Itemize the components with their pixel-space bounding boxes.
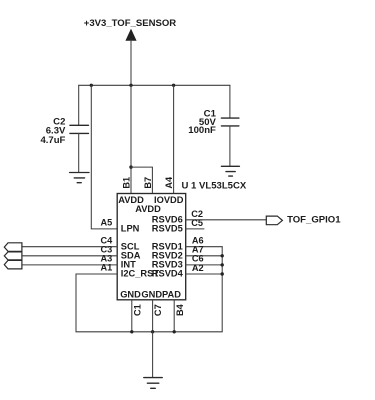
wire RSVD4 to bus xyxy=(186,273,223,275)
svg-text:A5: A5 xyxy=(100,218,112,228)
power flag +3V3_TOF_SENSOR xyxy=(126,30,136,86)
wire C1 to ground xyxy=(229,126,231,166)
wire SDA from tag xyxy=(22,255,117,257)
ground under C2 xyxy=(70,173,89,183)
capacitor C1 xyxy=(221,118,239,126)
svg-text:C5: C5 xyxy=(191,218,203,228)
hierarchical tag SDA xyxy=(4,252,22,260)
svg-text:A2: A2 xyxy=(192,263,204,273)
wire power rail xyxy=(79,84,230,86)
wire pin B4 GNDPAD xyxy=(173,300,175,332)
wire INT from tag xyxy=(22,264,117,266)
wire RSVD3 to bus xyxy=(186,264,223,266)
svg-text:100nF: 100nF xyxy=(188,125,216,136)
wire ground rail bottom xyxy=(76,331,222,333)
junction on rail at LPN branch xyxy=(90,84,93,87)
ground under C1 xyxy=(221,166,239,176)
svg-text:AVDD: AVDD xyxy=(135,204,161,214)
junction at B7 branch xyxy=(129,165,132,168)
capacitor C2 xyxy=(70,125,89,133)
svg-text:GND: GND xyxy=(120,290,141,300)
svg-text:+3V3_TOF_SENSOR: +3V3_TOF_SENSOR xyxy=(84,18,177,29)
op-amp U1 body VL53L5CX xyxy=(117,194,186,300)
wire rail to LPN pin A5 xyxy=(91,85,117,229)
svg-text:RSVD5: RSVD5 xyxy=(152,224,183,234)
wire rail to pin B1 AVDD xyxy=(130,85,132,193)
wire RSVD5 stub xyxy=(186,228,204,230)
svg-text:GNDPAD: GNDPAD xyxy=(141,290,181,300)
junction gnd rail B4 xyxy=(173,330,176,333)
wire pin C1 GND xyxy=(131,300,133,332)
junction gnd rail C1 xyxy=(130,330,133,333)
wire branch to pin B7 xyxy=(131,167,152,193)
wire C2 to ground xyxy=(78,133,80,172)
svg-text:B4: B4 xyxy=(175,303,185,316)
hierarchical tag TOF_GPIO1 xyxy=(266,216,282,225)
junction gnd rail C7 xyxy=(151,330,154,333)
wire I2C_RST to ground rail xyxy=(76,274,117,332)
svg-text:B1: B1 xyxy=(121,177,131,189)
junction bus RSVD4 xyxy=(221,272,224,275)
wire rail to C2 xyxy=(78,85,80,125)
wire RSVD6 to TOF_GPIO1 xyxy=(186,219,267,221)
junction bus RSVD3 xyxy=(221,263,224,266)
svg-text:4.7uF: 4.7uF xyxy=(40,135,65,146)
svg-text:A1: A1 xyxy=(100,263,112,273)
wire RSVD bus vertical xyxy=(221,247,223,332)
svg-text:B7: B7 xyxy=(143,177,153,189)
svg-text:A4: A4 xyxy=(164,176,174,189)
junction on rail at IOVDD branch xyxy=(172,84,175,87)
svg-text:TOF_GPIO1: TOF_GPIO1 xyxy=(287,215,341,226)
wire rail to pin A4 IOVDD xyxy=(173,85,175,193)
hierarchical tag SCL xyxy=(4,243,22,252)
ground main xyxy=(144,378,162,389)
svg-text:RSVD4: RSVD4 xyxy=(152,269,184,279)
wire rail to C1 xyxy=(229,85,231,118)
svg-text:C7: C7 xyxy=(153,304,163,316)
svg-text:U 1 VL53L5CX: U 1 VL53L5CX xyxy=(182,181,247,192)
wire RSVD1 to bus xyxy=(186,246,223,248)
wire pin C7 GND xyxy=(152,300,154,332)
wire SCL from tag xyxy=(22,246,117,248)
junction bus RSVD2 xyxy=(221,254,224,257)
junction on rail at AVDD branch xyxy=(129,84,132,87)
svg-text:LPN: LPN xyxy=(121,224,140,234)
wire to ground symbol xyxy=(152,332,154,378)
svg-text:C1: C1 xyxy=(132,304,142,316)
wire RSVD2 to bus xyxy=(186,255,223,257)
hierarchical tag INT xyxy=(4,260,22,269)
